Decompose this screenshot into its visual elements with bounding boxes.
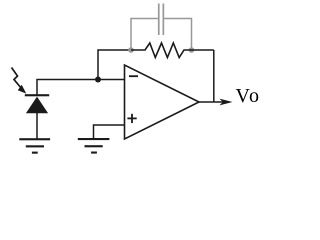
junction dot right (gray) (189, 47, 195, 53)
photodiode D1 triangle (26, 97, 48, 114)
light arrowhead (18, 85, 27, 94)
ground (non-inverting input) (78, 138, 110, 154)
op-amp minus label (129, 75, 138, 77)
wire: photodiode top lead to input node (37, 80, 125, 96)
capacitor C (gray) left riser wire (131, 19, 158, 51)
photodiode D1 cathode bar (25, 94, 49, 96)
junction dot left (gray) (128, 47, 134, 53)
photodiode bottom lead wire (36, 113, 38, 139)
wire: output (199, 101, 223, 103)
capacitor C right riser wire (164, 19, 192, 51)
light arrow (incident light on photodiode) (12, 68, 22, 89)
svg-text:Vo: Vo (236, 85, 259, 107)
resistor R (feedback) (131, 43, 214, 58)
capacitor C plates (158, 4, 160, 36)
wire: feedback right drop to output (213, 50, 215, 102)
ground (under photodiode) (19, 138, 50, 154)
wire: feedback left riser (98, 50, 131, 80)
wire: non-inverting input to ground (94, 125, 125, 139)
op-amp U1 triangle (125, 65, 200, 139)
op-amp plus label (127, 114, 136, 123)
node A junction dot (inverting input node) (95, 77, 101, 83)
output arrowhead (219, 99, 232, 106)
